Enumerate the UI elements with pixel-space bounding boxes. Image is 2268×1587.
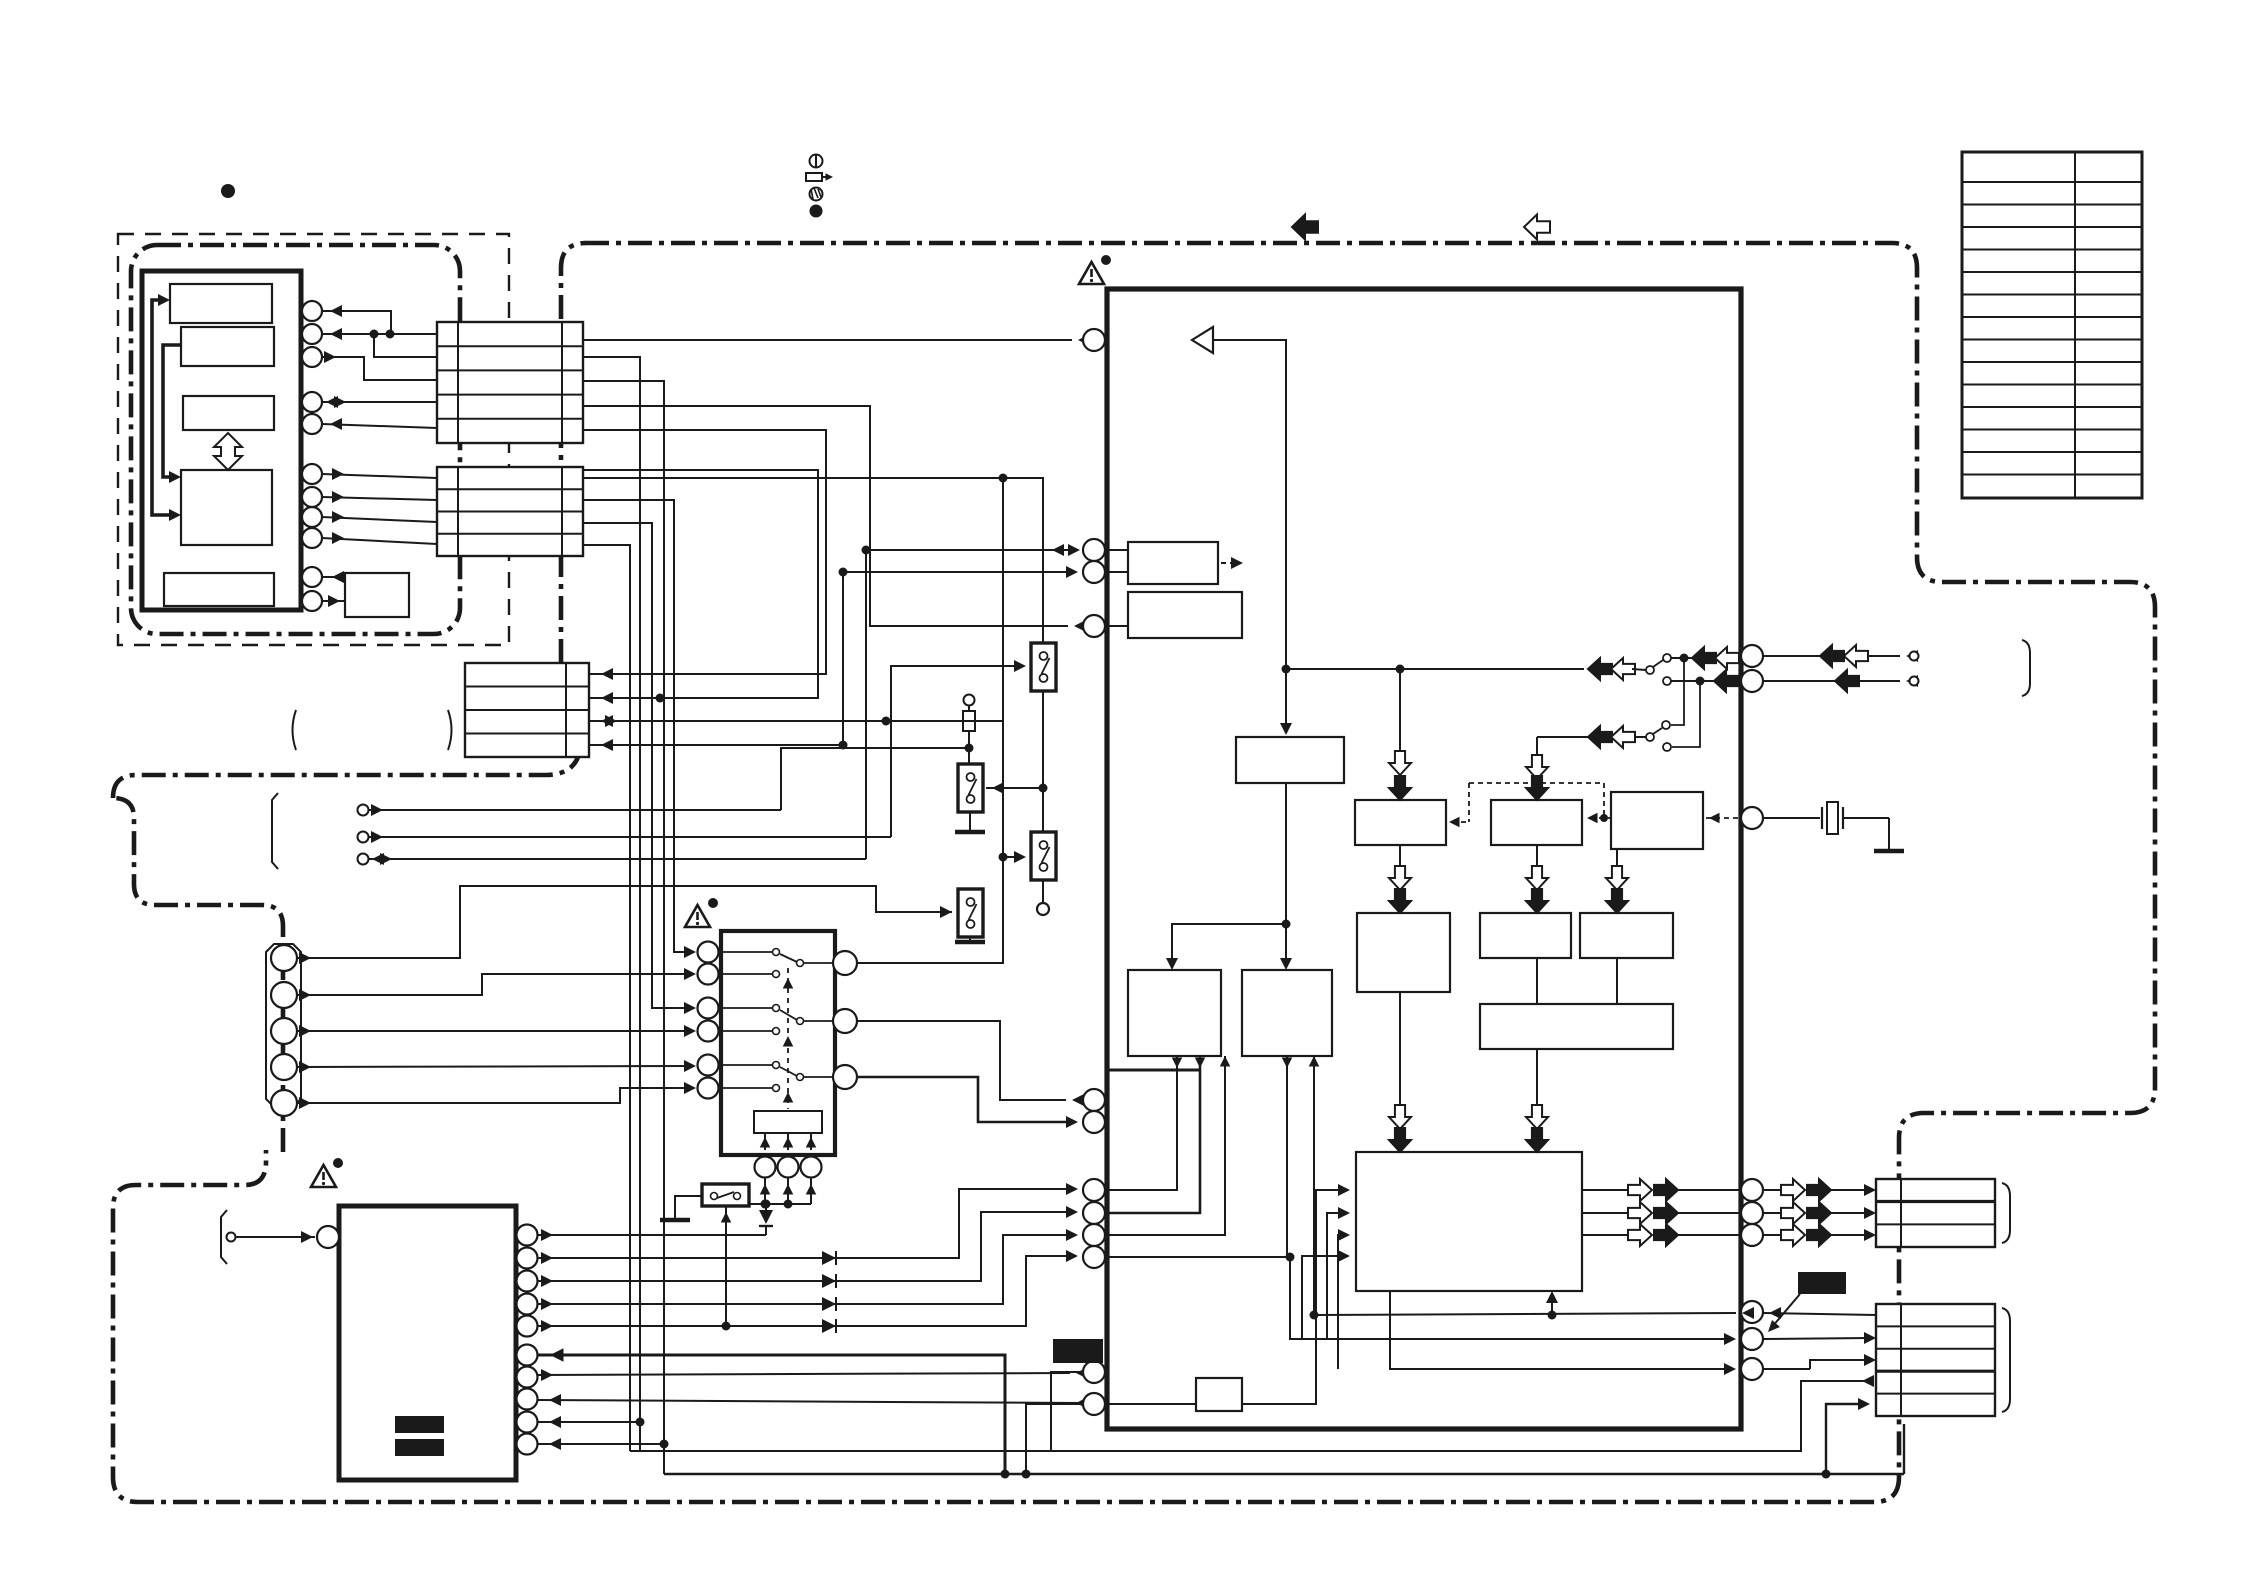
- block RF amp: [183, 396, 274, 430]
- wire DSP in3: [1338, 1235, 1344, 1369]
- wire switch row3 internal: [1537, 736, 1646, 738]
- CD box pin circle y=424: [302, 414, 322, 434]
- wire pin402 to CN1: [322, 401, 437, 403]
- boundary outer dash-dot (bottom edge): [113, 1150, 1874, 1502]
- selector thick box: [721, 931, 835, 1155]
- block clock buf: [1196, 1378, 1242, 1411]
- IC right pin y=1339: [1741, 1328, 1763, 1350]
- wire DSP in4: [1302, 1256, 1344, 1339]
- IC left pin y=1257: [1083, 1246, 1105, 1268]
- CD box pin circle y=538: [302, 528, 322, 548]
- wire DSP out3: [1582, 1234, 1628, 1236]
- ground from SW5: [675, 1196, 702, 1218]
- black label box left: [1053, 1339, 1103, 1363]
- wire node horizontal: [749, 1203, 811, 1205]
- legend symbol hatched circle: [810, 188, 823, 201]
- CD box pin circle y=577: [302, 567, 322, 587]
- wire strip3: [297, 1030, 690, 1032]
- selector arm 2: [780, 1010, 797, 1020]
- tuner pin y=1399: [517, 1389, 538, 1410]
- CD box pin circle y=474: [302, 464, 322, 484]
- wire throwB to pin681: [1671, 680, 1714, 682]
- wire DSP out1: [1582, 1189, 1628, 1191]
- selector contact 2: [718, 973, 772, 975]
- selector input pin 5: [698, 1055, 719, 1076]
- wire VCO down: [1285, 783, 1287, 964]
- switch SW5 power: [702, 1184, 749, 1206]
- IC right pin y=1369: [1741, 1358, 1763, 1380]
- legend symbol filled circle: [810, 205, 823, 218]
- wire B9 down: [1536, 1049, 1538, 1106]
- wire tuner p1: [537, 1234, 766, 1236]
- switch upper throw B: [1663, 677, 1671, 685]
- IC right pin y=1213: [1741, 1202, 1763, 1224]
- tuner thick box: [339, 1206, 516, 1480]
- selector contact 4: [718, 1030, 772, 1032]
- wire pin1339 out: [1763, 1338, 1870, 1339]
- dashed link B3-B4-B5: [1469, 782, 1604, 784]
- thick bus under BA: [1107, 1069, 1200, 1072]
- wire strip5: [297, 1088, 690, 1103]
- wire BA feed1: [1105, 1056, 1177, 1190]
- fat arrows into B3: [1389, 751, 1411, 775]
- connector CN-R1 table: [1876, 1179, 1995, 1247]
- tuner antenna input pin: [317, 1226, 339, 1248]
- antenna terminal: [227, 1233, 236, 1242]
- wire CN3r4 vertical to IC pin572: [843, 572, 1072, 745]
- wire bus CN2r4 down: [583, 545, 630, 1451]
- wire SW3 bottom terminal: [1042, 880, 1044, 903]
- legend big filled arrow left: [1292, 215, 1318, 240]
- fat arrows into B6: [1389, 866, 1411, 890]
- block B1: [1128, 542, 1218, 584]
- tuner pin y=1326: [517, 1316, 538, 1337]
- CD box pin circle y=402: [302, 392, 322, 412]
- wire row3 into B4: [1536, 737, 1538, 758]
- wire bus CN1r3 down: [583, 381, 664, 1444]
- wire loop p9 join: [630, 1450, 1051, 1452]
- legend service-position dot: [221, 184, 235, 198]
- IC right pin y=818: [1741, 807, 1763, 829]
- bracket for line-in terminals: [272, 793, 278, 869]
- selector control dashed line: [787, 968, 789, 1109]
- fat arrows into DSP right: [1526, 1105, 1548, 1129]
- connector CN-R2 table: [1876, 1304, 1995, 1416]
- wire CN3 row4: [589, 744, 843, 746]
- boundary dash-dot rounded rect (mechanism unit): [131, 245, 460, 634]
- wire amp to VCO box: [1213, 340, 1286, 729]
- wire VCO branch to BA: [1172, 924, 1286, 964]
- warning triangle main IC: [1079, 262, 1104, 284]
- wire CN3 row3: [589, 720, 1003, 722]
- wire out1404 loop: [1026, 1404, 1083, 1474]
- fat arrows into B7: [1526, 866, 1548, 890]
- fat arrows into B8: [1606, 866, 1628, 890]
- wire node to SW2 right: [986, 787, 1043, 789]
- block servo: [181, 470, 272, 545]
- selector input pin 2: [698, 964, 719, 985]
- bracket CN-R1: [2002, 1183, 2010, 1243]
- fat arrows into pin656: [1692, 647, 1716, 669]
- strip pin y=1103: [271, 1090, 297, 1116]
- crystal ground: [1888, 818, 1890, 849]
- wire pin474 to CN2: [322, 474, 437, 478]
- IC left pin y=1190: [1083, 1179, 1105, 1201]
- terminal line-in 1: [358, 805, 369, 816]
- wire vert1400: [1399, 669, 1401, 752]
- legend big hollow arrow left: [1524, 215, 1550, 240]
- terminal line-in 3: [358, 854, 369, 865]
- wire R1 node to SW2: [968, 748, 970, 764]
- connector strip outline: [266, 944, 301, 1107]
- block B3: [1355, 800, 1446, 845]
- wire pin538 to CN2: [322, 538, 437, 544]
- IC right pin y=1190: [1741, 1179, 1763, 1201]
- IC left pin y=340: [1083, 329, 1105, 351]
- wire DSP out bottom: [1390, 1291, 1730, 1369]
- wire throwA to pin656: [1671, 657, 1692, 659]
- wire hline1315: [1314, 1313, 1736, 1315]
- wire 656 terminal: [1868, 655, 1900, 657]
- IC right pin y=656: [1741, 645, 1763, 667]
- CD box pin circle y=601: [302, 591, 322, 611]
- wire tuner p6 thick audio: [538, 1355, 1005, 1474]
- diode D1: [762, 1200, 771, 1209]
- block B5: [1611, 792, 1703, 849]
- wire bus CN1r2 down: [583, 357, 640, 1422]
- IC left pin y=1122: [1083, 1111, 1105, 1133]
- wire pin601 to motor box: [322, 600, 345, 602]
- fat arrows sw row3: [1588, 726, 1612, 748]
- wire BB feed1: [1105, 1056, 1287, 1257]
- resistor R1 terminal: [964, 695, 975, 706]
- block pickup: [170, 284, 272, 323]
- bracket antenna: [221, 1210, 227, 1264]
- wire node374 to CN1 row2: [374, 334, 437, 357]
- boundary outer dash-dot (left notch around connector): [113, 757, 578, 1152]
- block B7: [1480, 913, 1571, 958]
- block BA: [1128, 970, 1221, 1056]
- label arrow diagonal: [1772, 1294, 1800, 1327]
- switch SW2: [958, 764, 983, 812]
- tuner pin y=1444: [517, 1434, 538, 1455]
- tuner pin y=1422: [517, 1412, 538, 1433]
- strip pin y=1031: [271, 1018, 297, 1044]
- ground under SW4: [969, 937, 971, 940]
- bracket CN-R2: [2002, 1308, 2010, 1412]
- hollow double arrow between RF and servo: [214, 433, 242, 470]
- thick feedback wire B: [163, 345, 181, 477]
- wire BA feed2: [1105, 1056, 1200, 1213]
- wire pin497 to CN2: [322, 497, 437, 500]
- boundary dashed rect around CD mechanism block: [118, 234, 509, 645]
- wire pin1213 to CN table: [1763, 1212, 1781, 1214]
- wire 684 terminal: [1859, 680, 1900, 682]
- wire tuner p10: [537, 1443, 664, 1445]
- strip pin y=958: [271, 945, 297, 971]
- CD box pin circle y=357: [302, 347, 322, 367]
- wire bus CN2r3 to selector row3: [583, 523, 690, 1008]
- wire pin357 to CN1: [322, 357, 437, 380]
- wire clockbuf to DSP: [1242, 1190, 1344, 1404]
- black label box right: [1798, 1272, 1846, 1294]
- IC left pin y=626: [1083, 615, 1105, 637]
- wire tuner p3 to IC: [537, 1212, 1072, 1281]
- fat arrow out 681: [1835, 670, 1859, 692]
- block VCO: [1236, 737, 1344, 783]
- CD mechanism thick box: [142, 271, 301, 610]
- wire DSP in2: [1327, 1213, 1344, 1339]
- wire line-in2 to SW1: [891, 666, 1020, 837]
- wire tuner p2 to IC: [537, 1189, 1072, 1258]
- wire pin1235 to CN table: [1763, 1234, 1781, 1236]
- selector driver box: [754, 1111, 822, 1133]
- selector arm 1: [780, 954, 797, 962]
- wire selC2 net: [858, 1021, 1066, 1100]
- warning triangle tuner: [311, 1165, 336, 1187]
- selector contact 3: [718, 1007, 772, 1009]
- wire pin424 to CN1: [322, 424, 437, 428]
- thick feedback wire A: [152, 300, 169, 515]
- tuner equals bar 2: [395, 1439, 444, 1456]
- wire pin334 to CN1: [322, 333, 437, 335]
- block BB: [1242, 970, 1332, 1056]
- wire CN2r1 to SW1: [583, 478, 1043, 643]
- connector CN1 table: [437, 322, 583, 443]
- wire selC1 SW3 tap: [1003, 856, 1020, 858]
- wire SW1 to SW3 chain: [1042, 691, 1044, 832]
- IC left pin y=1372: [1083, 1361, 1105, 1383]
- wire tuner p4 to IC: [537, 1235, 1072, 1304]
- wire pin1369 out: [1763, 1368, 1810, 1370]
- wire tuner p7 from IC: [537, 1373, 1070, 1375]
- IC left pin y=572: [1083, 561, 1105, 583]
- wire BA feed3: [1105, 1056, 1225, 1235]
- selector bottom pin 1: [755, 1157, 776, 1178]
- wire strip1: [297, 886, 952, 958]
- selector contact 6: [718, 1087, 772, 1089]
- main IC thick box: [1107, 289, 1741, 1429]
- block B1 dashed out arrow: [1221, 562, 1236, 564]
- IC left pin y=1100: [1083, 1089, 1105, 1111]
- connector CN2 table: [437, 467, 583, 556]
- selector contact 5: [718, 1064, 772, 1066]
- wire selC3 net: [858, 1077, 1072, 1122]
- IC left pin y=1213: [1083, 1202, 1105, 1224]
- switch SW4: [958, 889, 983, 937]
- wire tuner p8 from IC: [537, 1400, 1082, 1403]
- wire strip2: [297, 974, 690, 995]
- wire pin681 out: [1763, 680, 1835, 682]
- selector output pin 3: [833, 1065, 857, 1089]
- boundary outer dash-dot (top and right side): [585, 243, 2155, 1502]
- wire node658 down to lower throw: [1671, 658, 1684, 725]
- switch lower common: [1646, 733, 1654, 741]
- wire CN1r4 to IC pin626: [583, 406, 1068, 626]
- IC left pin y=1404: [1083, 1393, 1105, 1415]
- wire B6 down: [1399, 992, 1401, 1106]
- block B4: [1491, 800, 1582, 845]
- pin function table top-right: [1962, 152, 2142, 498]
- wire pin1404 to clockbuf: [1105, 1403, 1196, 1405]
- switch SW1: [1031, 643, 1056, 691]
- wire sel pins to node: [764, 1178, 766, 1204]
- block B8: [1580, 913, 1673, 958]
- tuner pin y=1281: [517, 1271, 538, 1292]
- tuner pin y=1304: [517, 1294, 538, 1315]
- strip pin y=995: [271, 982, 297, 1008]
- boundary outer dash-dot (vertical through CN connector): [561, 243, 586, 663]
- wire CN1r1 to IC pin (audio line): [583, 339, 1072, 341]
- selector contact 1: [718, 951, 772, 953]
- wire hbus669: [1286, 668, 1400, 670]
- wire bus CN2r2 to selector row1: [583, 500, 690, 952]
- selector output pin 1: [833, 951, 857, 975]
- block spindle: [181, 327, 274, 366]
- wire line-in3 to IC pin550: [866, 550, 1069, 859]
- wire pin1190 to CN table: [1763, 1189, 1781, 1191]
- wire DSP bottom arrow: [1551, 1297, 1553, 1315]
- fat arrow into pin681: [1714, 670, 1738, 692]
- selector driver inputs: [764, 1133, 766, 1150]
- selector arm 3: [780, 1067, 797, 1076]
- wire DSP out2: [1582, 1212, 1628, 1214]
- terminal line-in 2: [358, 832, 369, 843]
- block B6: [1357, 913, 1450, 992]
- wire pin1312 in: [1763, 1313, 1876, 1315]
- switch SW3: [1031, 832, 1056, 880]
- wire pin311: [322, 311, 391, 334]
- legend symbol test-point rect with arrow: [806, 173, 822, 181]
- wire node681 down to lower throw: [1672, 681, 1700, 747]
- block B2: [1128, 592, 1242, 638]
- tuner pin y=1235: [517, 1225, 538, 1246]
- switch upper throw A: [1663, 654, 1671, 662]
- tuner pin y=1258: [517, 1248, 538, 1269]
- wire line-in1 to R node: [781, 748, 966, 810]
- tuner pin y=1377: [517, 1367, 538, 1388]
- wire bottom bus 1474: [664, 1473, 1904, 1475]
- paren right of CN3 area: [448, 710, 452, 750]
- IC left pin y=550: [1083, 539, 1105, 561]
- legend symbol circle with bar: [810, 155, 823, 168]
- fat arrows into B4: [1526, 755, 1548, 779]
- wire tuner p5 to IC: [537, 1256, 1072, 1326]
- IC right pin y=1235: [1741, 1224, 1763, 1246]
- IC left pin y=1235: [1083, 1224, 1105, 1246]
- wire switch row1 internal: [1400, 668, 1584, 670]
- CD box pin circle y=311: [302, 301, 322, 321]
- wire hline1337: [1290, 1257, 1730, 1339]
- selector input pin 6: [698, 1078, 719, 1099]
- switch upper common: [1632, 669, 1646, 670]
- selector input pin 3: [698, 998, 719, 1019]
- CD box pin circle y=334: [302, 324, 322, 344]
- tuner equals bar 1: [395, 1416, 444, 1433]
- selector output pin 2: [833, 1009, 857, 1033]
- fat arrows sw row1: [1588, 658, 1612, 680]
- motor drive box: [345, 573, 409, 617]
- fat arrows into DSP left: [1389, 1105, 1411, 1129]
- CD box pin circle y=497: [302, 487, 322, 507]
- resistor R1: [963, 711, 975, 731]
- block B9: [1480, 1004, 1673, 1049]
- wire B4 bottom to fat arrows: [1536, 845, 1538, 866]
- amp buffer triangle: [1192, 327, 1213, 353]
- wire strip4: [297, 1066, 690, 1067]
- ground under SW2: [969, 812, 971, 830]
- paren left of CN3 area: [293, 710, 297, 750]
- selector bottom pin 3: [801, 1157, 822, 1178]
- selector bottom pin 2: [778, 1157, 799, 1178]
- wire pin517 to CN2: [322, 517, 437, 522]
- wire tuner p9: [537, 1421, 640, 1423]
- connector CN3 table: [465, 663, 589, 757]
- strip pin y=1067: [271, 1054, 297, 1080]
- block DSP: [1356, 1152, 1582, 1291]
- IC right pin y=1312: [1741, 1301, 1763, 1323]
- IC right pin y=681: [1741, 670, 1763, 692]
- selector input pin 4: [698, 1021, 719, 1042]
- CD box pin circle y=517: [302, 507, 322, 527]
- wire selC1 net: [858, 478, 1003, 963]
- block feed motor: [164, 573, 274, 606]
- crystal X1: [1763, 817, 1820, 819]
- wire up into SW5: [725, 1206, 727, 1326]
- switch upper arm: [1653, 660, 1663, 667]
- tuner pin y=1355: [517, 1345, 538, 1366]
- wire CN3 row1 U-link: [583, 430, 826, 674]
- wire out1372 loop: [1051, 1372, 1868, 1451]
- fat arrows out 656: [1820, 645, 1844, 667]
- wire BB feed2: [1313, 1056, 1315, 1315]
- bracket right terminals: [2022, 640, 2030, 696]
- wire bus1474 to CN row5: [1826, 1404, 1864, 1474]
- warning triangle near selector: [685, 905, 710, 927]
- wire CN3 row2 U-link: [583, 470, 818, 698]
- wire pin656 out: [1763, 655, 1820, 657]
- selector input pin 1: [698, 942, 719, 963]
- wire pin577 from motor box: [322, 576, 345, 578]
